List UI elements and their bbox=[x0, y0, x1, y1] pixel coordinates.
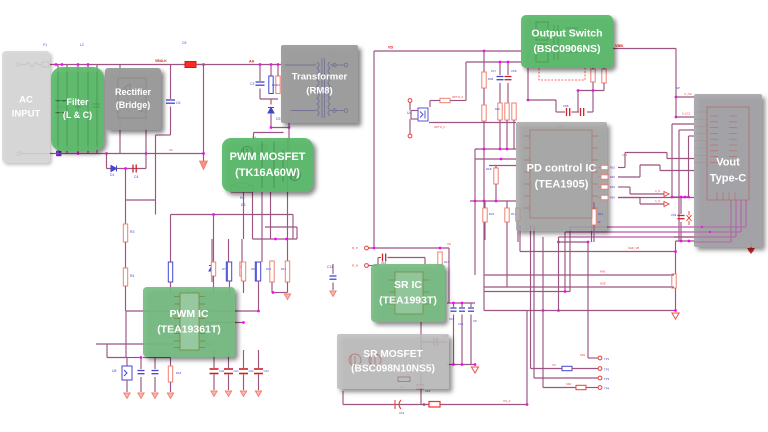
junction bbox=[483, 148, 486, 151]
wire conn drop b bbox=[678, 130, 680, 241]
junction bbox=[285, 238, 288, 241]
resistor R13 bbox=[211, 262, 215, 276]
junction bbox=[124, 167, 127, 170]
resistor R02 bbox=[601, 175, 608, 179]
svg-text:VS: VS bbox=[447, 242, 451, 246]
wire drop 3 bbox=[270, 192, 272, 239]
wire R22 bottom bbox=[484, 222, 486, 240]
wire PD row 2 bbox=[475, 158, 516, 160]
wire U5 right pin 2 bbox=[592, 147, 598, 149]
svg-text:C16: C16 bbox=[458, 322, 464, 326]
junction bbox=[140, 356, 143, 359]
wire snubber cap top bbox=[259, 65, 261, 82]
wire J1 left pin 4 bbox=[694, 133, 707, 135]
svg-text:VD: VD bbox=[552, 363, 556, 367]
capacitor C16 bbox=[459, 308, 465, 311]
capacitor C23 bbox=[254, 369, 263, 374]
junction bbox=[675, 116, 678, 119]
capacitor C6C bbox=[581, 108, 584, 116]
junction bbox=[526, 403, 529, 406]
wire bus D+ bbox=[559, 236, 737, 238]
junction bbox=[527, 99, 530, 102]
SR IC ghost overlay bbox=[389, 272, 429, 314]
wire neg vertical bbox=[106, 154, 108, 169]
offpage arrow CC1 bbox=[664, 192, 669, 197]
resistor R19b bbox=[440, 98, 450, 102]
wire SR cap rail bbox=[447, 302, 475, 304]
junction bbox=[272, 291, 275, 294]
svg-text:AC: AC bbox=[19, 95, 33, 106]
wire C15 bottom bbox=[453, 315, 455, 365]
capacitor C21 bbox=[224, 369, 233, 374]
terminal T1 pin 6 bbox=[333, 63, 337, 67]
terminal OPTO1C bbox=[408, 134, 412, 138]
resistor R23 bbox=[591, 69, 595, 82]
wire opto A link bbox=[450, 100, 466, 102]
SR MOSFET Q3 ghost bbox=[349, 354, 381, 366]
block label Transformer text bbox=[292, 72, 348, 97]
hot loop outline bbox=[539, 66, 585, 80]
svg-text:C_D: C_D bbox=[655, 199, 660, 203]
svg-text:R4: R4 bbox=[130, 274, 134, 278]
terminal TP4 bbox=[598, 386, 602, 390]
svg-text:L2: L2 bbox=[80, 43, 84, 47]
wire VBB out bbox=[613, 48, 676, 50]
capacitor C10 bbox=[383, 254, 386, 262]
wire gate drop bbox=[577, 91, 579, 113]
wire VD rail bbox=[374, 50, 521, 52]
diode D1 bbox=[111, 166, 117, 172]
wire U5 left pin 5 bbox=[524, 183, 530, 185]
wire R_N stub bbox=[369, 265, 379, 267]
wire C17 top bbox=[499, 62, 501, 75]
block label Vout Type-C bbox=[694, 94, 762, 247]
svg-text:R_N: R_N bbox=[352, 264, 358, 268]
primary ground bbox=[200, 161, 208, 170]
wire loop left link bbox=[483, 292, 485, 311]
wire left drop bbox=[125, 311, 127, 358]
resistor R10 bbox=[270, 261, 274, 282]
fuse F1 bbox=[42, 62, 49, 67]
junction bbox=[257, 310, 260, 313]
wire supply link magenta bbox=[126, 357, 141, 359]
wire transformer primary return to MOSFET drain bbox=[288, 111, 290, 161]
wire C21 bottom bbox=[228, 375, 230, 391]
terminal TP3 bbox=[598, 376, 602, 380]
terminal R_N bbox=[365, 264, 369, 268]
wire C22 bottom bbox=[243, 375, 245, 391]
capacitor C20 bbox=[210, 369, 219, 374]
wire C23 bottom bbox=[258, 375, 260, 391]
junction bbox=[55, 63, 58, 66]
wire opto pin left bottom bbox=[411, 118, 418, 120]
wire PD left column bbox=[483, 121, 485, 292]
wire R12 to IC bbox=[170, 282, 172, 293]
svg-text:C4: C4 bbox=[134, 175, 138, 179]
svg-text:R22: R22 bbox=[489, 212, 495, 216]
junction bbox=[674, 250, 677, 253]
wire OPTO C line bbox=[429, 122, 516, 124]
wire R04 right bbox=[618, 197, 640, 199]
wire TP col 3 bbox=[587, 242, 589, 358]
resistor R19 shunt bbox=[429, 402, 440, 408]
svg-text:AA: AA bbox=[249, 60, 255, 64]
svg-text:A_CC1: A_CC1 bbox=[682, 112, 691, 116]
ground cs bbox=[284, 294, 290, 300]
wire C14 right bbox=[429, 341, 447, 343]
wire to C6B bbox=[528, 99, 556, 101]
resistor R3 bbox=[123, 224, 127, 242]
wire step corner1 bbox=[666, 153, 668, 159]
svg-text:TP2: TP2 bbox=[604, 368, 610, 372]
resistor R04 bbox=[601, 195, 608, 199]
svg-text:R08: R08 bbox=[488, 77, 494, 81]
SR controller U2 ghost bbox=[389, 272, 429, 314]
capacitor C69 bbox=[678, 216, 685, 219]
wire conn leg overlay 1 bbox=[745, 200, 747, 227]
wire R_P line bbox=[369, 247, 450, 249]
terminal TP1 bbox=[598, 356, 602, 360]
wire step corner2 bbox=[659, 165, 661, 171]
resistor R12 bbox=[168, 262, 172, 282]
wire VBB drop bbox=[675, 49, 677, 118]
PWM IC U1 ghost overlay bbox=[174, 293, 205, 350]
svg-text:R3: R3 bbox=[130, 230, 134, 234]
block label PD control IC bbox=[516, 122, 607, 231]
bulk capacitor C7 bbox=[166, 100, 175, 103]
wire CC out 4 bbox=[640, 203, 664, 205]
wire R_N riser bbox=[377, 258, 379, 266]
block label Filter text bbox=[63, 97, 92, 120]
svg-text:C11: C11 bbox=[327, 265, 333, 269]
wire FB rail bbox=[126, 310, 259, 312]
wire C13 bottom bbox=[154, 377, 156, 392]
wire AC top rail bbox=[49, 64, 204, 66]
wire R4 to PWM IC bbox=[125, 286, 127, 311]
junction bbox=[259, 63, 262, 66]
wire bus SBU2 bbox=[565, 231, 741, 233]
wire opto terminal a bbox=[409, 103, 411, 111]
wire bridge out neg bbox=[119, 118, 121, 154]
junction bbox=[592, 89, 595, 92]
junction bbox=[499, 61, 502, 64]
junction bbox=[439, 247, 442, 250]
resistor R18 bbox=[168, 366, 172, 382]
resistor R16 bbox=[592, 209, 596, 225]
resistor R15b bbox=[241, 262, 245, 281]
wire drain link bbox=[271, 127, 289, 129]
svg-text:R11: R11 bbox=[281, 267, 286, 271]
wire aux link bottom bbox=[337, 110, 344, 112]
svg-text:C19: C19 bbox=[399, 411, 405, 415]
wire C16 top bbox=[461, 303, 463, 307]
resistor R15 bbox=[398, 377, 410, 382]
wire R03 left bbox=[598, 186, 601, 188]
wire U1 right pin 5 bbox=[199, 325, 205, 327]
block label PWM MOSFET text bbox=[230, 151, 306, 179]
wire TP1 lead bbox=[588, 357, 598, 359]
wire C8 top bbox=[470, 303, 472, 307]
svg-text:(TEA1905): (TEA1905) bbox=[535, 178, 589, 190]
svg-text:R1B: R1B bbox=[486, 167, 492, 171]
svg-text:TP3: TP3 bbox=[604, 377, 610, 381]
junction bbox=[495, 200, 498, 203]
wire TP4 col bbox=[542, 311, 544, 388]
wire R14 bottom bbox=[229, 281, 231, 293]
snubber capacitor C3 bbox=[256, 82, 265, 85]
wire step drop1 bbox=[624, 153, 626, 168]
junction bbox=[688, 240, 691, 243]
block label PWM MOSFET bbox=[222, 138, 313, 192]
bridge ghost overlay bbox=[118, 78, 146, 118]
wire C22 top bbox=[243, 350, 245, 368]
wire bus short bbox=[559, 241, 589, 243]
svg-text:VD: VD bbox=[388, 46, 394, 50]
output switch ghost overlay bbox=[536, 22, 578, 62]
wire C1B top bbox=[507, 62, 509, 75]
svg-text:R9: R9 bbox=[251, 267, 255, 271]
wire VS bottom rail bbox=[343, 404, 527, 406]
resistor R8 bbox=[240, 262, 244, 276]
wire step rise2 bbox=[639, 165, 641, 177]
wire R0C bottom bbox=[513, 120, 515, 149]
svg-text:INPUT: INPUT bbox=[12, 108, 41, 119]
svg-text:C6B: C6B bbox=[563, 104, 569, 108]
wire opto terminal c bbox=[409, 119, 411, 134]
svg-text:R16: R16 bbox=[598, 212, 604, 216]
junction bbox=[499, 148, 502, 151]
svg-text:OPTO_C: OPTO_C bbox=[434, 125, 445, 129]
wire HV divider top bbox=[125, 169, 127, 225]
svg-text:D1: D1 bbox=[110, 173, 114, 177]
wire divider link bbox=[126, 199, 156, 201]
wire R08 top bbox=[483, 51, 485, 72]
wire U5 left pin 4 bbox=[524, 171, 530, 173]
wire C14 left bbox=[421, 341, 433, 343]
junction bbox=[680, 196, 683, 199]
wire U5 right pin 1 bbox=[592, 135, 598, 137]
svg-text:(BSC0906NS): (BSC0906NS) bbox=[533, 43, 600, 55]
wire step 2 bbox=[640, 164, 660, 166]
svg-text:(RM8): (RM8) bbox=[306, 85, 332, 96]
resistor R01 top bbox=[601, 165, 608, 169]
junction bbox=[423, 403, 426, 406]
resistor R04 top bbox=[601, 195, 608, 199]
wire U1 left pin 3 bbox=[174, 310, 180, 312]
wire R1B bottom bbox=[495, 184, 497, 201]
junction bbox=[270, 126, 273, 129]
svg-text:Vout: Vout bbox=[716, 156, 740, 168]
wire C12 bottom bbox=[140, 377, 142, 392]
wire R16 bottom bbox=[593, 225, 595, 242]
wire J1 left pin 6 bbox=[694, 147, 707, 149]
resistor R14 bbox=[227, 262, 231, 281]
wire sense drop bbox=[261, 192, 263, 262]
junction bbox=[687, 196, 690, 199]
svg-text:SP: SP bbox=[676, 86, 680, 90]
wire AC bottom rail bbox=[21, 153, 204, 155]
junction bbox=[57, 152, 60, 155]
X-cap CX1 bbox=[75, 104, 81, 107]
capacitor C11 bbox=[330, 276, 337, 279]
resistor R17 bbox=[505, 208, 509, 222]
svg-text:Rectifier: Rectifier bbox=[115, 87, 152, 97]
wire to C10 bbox=[378, 257, 381, 259]
wire R02 right bbox=[618, 176, 640, 178]
resistor R03 bbox=[601, 185, 608, 189]
wire TP2 lead right bbox=[572, 368, 598, 370]
wire U1 left pin 4 bbox=[174, 318, 180, 320]
resistor R22 bbox=[483, 208, 487, 222]
junction bbox=[270, 63, 273, 66]
SR MOSFET ghost overlay bbox=[349, 354, 410, 382]
junction bbox=[500, 158, 503, 161]
wire C17 bottom bbox=[499, 83, 501, 103]
wire VCC sec rail bbox=[466, 61, 521, 63]
svg-text:(BSC098N10NS5): (BSC098N10NS5) bbox=[351, 364, 435, 375]
wire bbox=[38, 64, 42, 66]
resistor R24 bbox=[602, 69, 606, 83]
wire bbox=[20, 64, 26, 66]
wire U1 right pin 8 bbox=[199, 347, 205, 349]
wire aux drop bbox=[213, 215, 215, 263]
svg-text:(L & C): (L & C) bbox=[63, 110, 92, 120]
resistor R16b bbox=[256, 262, 260, 281]
wire U5 left pin 2 bbox=[524, 147, 530, 149]
junction bbox=[373, 247, 376, 250]
wire bridge leg bbox=[145, 118, 147, 154]
junction bbox=[675, 96, 678, 99]
junction bbox=[87, 63, 90, 66]
wire step drop3 bbox=[629, 187, 631, 194]
capacitor C70 crossed bbox=[687, 211, 692, 225]
wire gate drop b bbox=[296, 227, 298, 239]
wire gnd row bbox=[676, 240, 696, 242]
svg-text:C22: C22 bbox=[249, 369, 255, 373]
svg-text:C69: C69 bbox=[671, 213, 677, 217]
svg-text:PWM IC: PWM IC bbox=[169, 308, 208, 320]
capacitor C15 bbox=[451, 308, 457, 311]
junction bbox=[61, 63, 64, 66]
junction bbox=[557, 241, 560, 244]
wire R16 bottom bbox=[258, 281, 260, 311]
junction bbox=[274, 238, 277, 241]
junction bbox=[483, 50, 486, 53]
wire right pin stub bbox=[205, 343, 214, 345]
wire U1 left pin 2 bbox=[174, 303, 180, 305]
wire gnd drop bbox=[675, 241, 677, 311]
wire bulk cap top bbox=[170, 65, 172, 100]
wire U5 right pin 6 bbox=[592, 195, 598, 197]
wire C20 bottom bbox=[213, 375, 215, 391]
optocoupler U8 bbox=[122, 366, 132, 380]
junction bbox=[507, 61, 510, 64]
wire aux col bbox=[474, 149, 476, 201]
junction bbox=[461, 363, 464, 366]
junction bbox=[587, 241, 590, 244]
PD IC ghost overlay bbox=[524, 130, 598, 218]
svg-text:(TEA19361T): (TEA19361T) bbox=[157, 323, 221, 335]
wire VBUS 2 bbox=[676, 116, 694, 118]
wire conn pin a bbox=[672, 123, 694, 125]
transformer T1 windings bbox=[317, 58, 330, 118]
svg-text:R04: R04 bbox=[610, 196, 615, 200]
wire bridge in top bbox=[119, 65, 121, 79]
svg-text:C21: C21 bbox=[234, 369, 240, 373]
wire J1 left pin 5 bbox=[694, 140, 707, 142]
svg-text:VBULK: VBULK bbox=[155, 59, 167, 63]
wire neg horizontal bbox=[107, 168, 147, 170]
block label Output Switch text bbox=[531, 28, 602, 55]
block label AC INPUT text bbox=[12, 95, 41, 120]
wire SR source drop bbox=[420, 322, 422, 405]
wire loop rail lower bbox=[484, 310, 676, 312]
svg-text:SD1: SD1 bbox=[580, 353, 586, 357]
wire aux rail 2 bbox=[484, 286, 672, 288]
wire gate drop a bbox=[292, 215, 294, 240]
junction bbox=[145, 152, 148, 155]
svg-text:C8: C8 bbox=[473, 319, 477, 323]
capacitor C8 bbox=[468, 308, 474, 311]
capacitor C13 bbox=[152, 371, 159, 374]
wire J1 left pin 2 bbox=[694, 118, 707, 120]
junction bbox=[77, 63, 80, 66]
wire U1 left pin 1 bbox=[174, 296, 180, 298]
wire R03 right bbox=[618, 186, 630, 188]
svg-text:PD control IC: PD control IC bbox=[527, 162, 597, 174]
wire R7 top bbox=[228, 239, 230, 262]
svg-text:R02: R02 bbox=[610, 175, 615, 179]
wire C6C drop bbox=[592, 91, 594, 113]
svg-text:R_P: R_P bbox=[352, 246, 358, 250]
junction bbox=[577, 89, 580, 92]
resistor R1 snubber bbox=[269, 76, 273, 94]
wire cs link bbox=[253, 238, 298, 240]
ground R18 bbox=[167, 393, 173, 399]
wire C13 top bbox=[154, 358, 156, 370]
wire GND rail left bbox=[96, 343, 174, 345]
wire opto A left bbox=[430, 100, 440, 102]
capacitor C14 bbox=[434, 338, 437, 346]
svg-text:R0A: R0A bbox=[495, 107, 500, 111]
svg-text:U8: U8 bbox=[112, 369, 116, 373]
wire TP col 2 bbox=[533, 225, 535, 378]
svg-text:C_OU: C_OU bbox=[684, 92, 692, 96]
junction overlay b bbox=[709, 231, 711, 233]
wire bus overlay 4 bbox=[694, 241, 731, 243]
capacitor C19 bbox=[395, 400, 401, 409]
junction bbox=[483, 200, 486, 203]
wire D2 top bbox=[211, 239, 213, 263]
wire R8 top bbox=[241, 239, 243, 262]
block label SR MOSFET text bbox=[351, 349, 435, 375]
wire opto A drop bbox=[429, 101, 431, 108]
wire primary pin top bbox=[281, 64, 316, 66]
wire shield stub bbox=[750, 242, 752, 248]
block label Rectifier bbox=[105, 68, 161, 130]
wire VS drop bbox=[448, 248, 450, 303]
wire U5 left pin 3 bbox=[524, 159, 530, 161]
terminal aux top bbox=[344, 63, 348, 67]
wire R11 bottom bbox=[287, 282, 289, 293]
wire C23 top bbox=[258, 350, 260, 368]
wire R15 bottom bbox=[243, 281, 245, 293]
wire gate loop bottom bbox=[231, 191, 253, 193]
wire U1 left pin 7 bbox=[174, 340, 180, 342]
junction bbox=[212, 213, 215, 216]
block label PWM IC text bbox=[157, 308, 221, 335]
svg-text:Output Switch: Output Switch bbox=[531, 28, 602, 40]
